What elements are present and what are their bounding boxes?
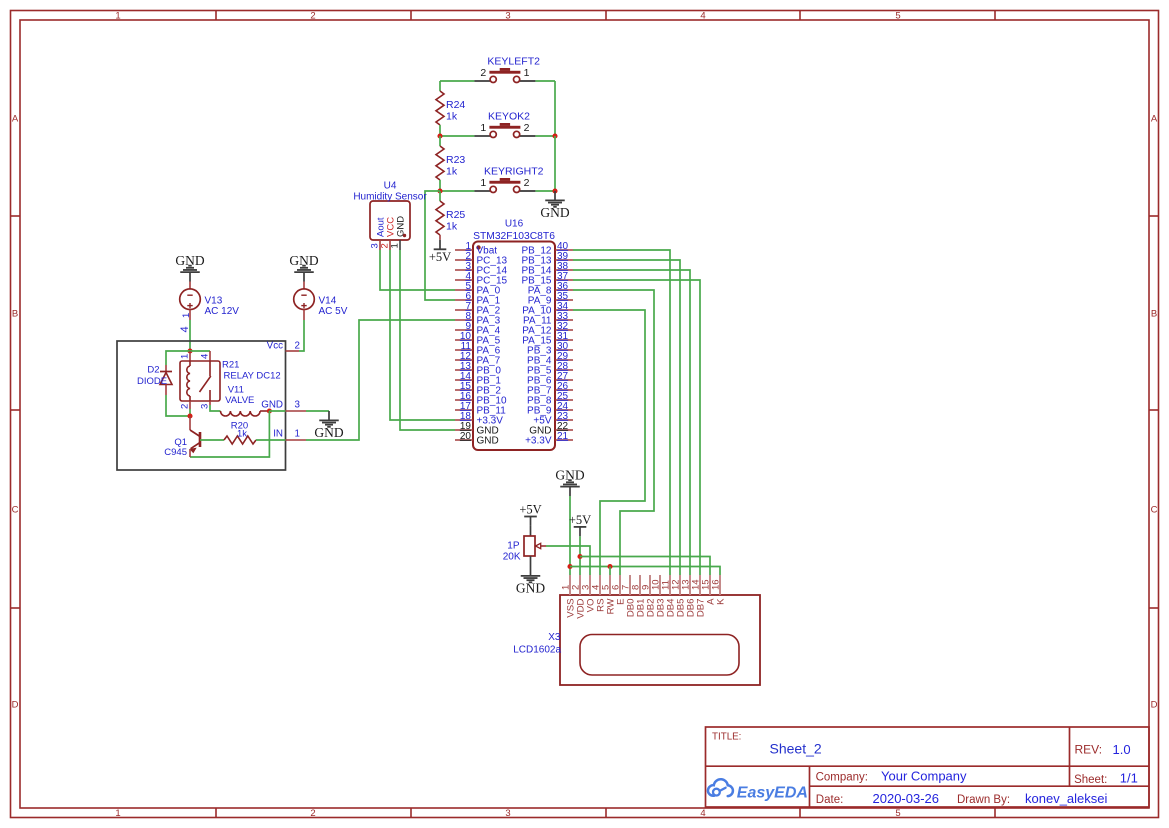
ground flag near plug [314,411,343,440]
svg-text:V11: V11 [228,384,244,395]
U16 pin 33 PA_11 [523,311,573,327]
U16 pin 34 PA_10 [522,301,573,317]
U16 pin 29 PB_4 [527,351,573,367]
wire V13 to plug pin 4 [189,320,191,351]
svg-text:A: A [1151,114,1158,125]
svg-text:Vcc: Vcc [267,340,283,351]
diode D2 [137,365,172,396]
U16 pin 15 PB_2 [455,381,501,397]
LCD pin 9 DB2 [641,575,657,617]
svg-text:KEYRIGHT2: KEYRIGHT2 [484,165,544,177]
svg-text:3: 3 [505,11,510,22]
power flag +5V above LCD VDD [569,513,591,536]
U16 pin 9 PA_4 [455,321,501,337]
wire U4 Aout to PA_0 [380,250,455,290]
relay R21 RELAY DC12 [179,351,280,409]
LCD pin 10 DB3 [651,575,667,617]
svg-text:2: 2 [179,404,190,409]
wire D2 bottom to node2 [166,395,190,416]
U16 pin 20 GND [455,431,499,447]
svg-text:4: 4 [700,11,705,22]
U16 pin 13 PB_0 [455,361,501,377]
U16 pin 27 PB_6 [527,371,573,387]
wire relay pin2 to node2 [189,409,191,416]
U4 pin 1 [399,240,401,250]
svg-text:GND: GND [477,436,499,447]
U16 pin 4 PC_15 [455,271,508,287]
U16 pin 16 PB_10 [455,391,507,407]
svg-text:4: 4 [179,326,191,332]
svg-text:D2: D2 [147,365,159,376]
svg-text:5: 5 [895,11,900,22]
svg-text:GND: GND [540,205,569,220]
svg-text:1.0: 1.0 [1113,742,1131,757]
svg-text:2: 2 [524,122,530,134]
svg-text:U4: U4 [384,181,397,192]
svg-text:U16: U16 [505,219,524,230]
svg-text:STM32F103C8T6: STM32F103C8T6 [473,231,555,242]
svg-text:AC 12V: AC 12V [205,306,240,317]
svg-text:GND: GND [261,399,283,410]
resistor R24 1k [436,91,465,125]
svg-text:Your Company: Your Company [881,769,967,784]
svg-text:C945: C945 [164,447,187,458]
wire left rail keys top [439,81,441,91]
wire U4 VCC to +3.3V pin18 [390,250,455,420]
wire R24 to node [439,125,441,136]
svg-text:VALVE: VALVE [225,395,254,406]
plug pin 2 Vcc [286,350,300,352]
svg-text:3: 3 [199,404,210,409]
right rail wire keyok-keyright [554,136,556,191]
svg-text:RELAY DC12: RELAY DC12 [224,370,281,381]
title block table [706,727,1150,807]
wire R20 to plug pin IN [256,439,286,441]
svg-text:EasyEDA: EasyEDA [737,784,808,801]
relay pin3 stub [209,401,211,405]
EasyEDA logo [708,779,808,801]
svg-text:D: D [1151,700,1158,711]
wire PA_10 to LCD RS [573,310,645,575]
svg-text:1: 1 [480,177,486,189]
svg-text:AC 5V: AC 5V [319,306,348,317]
svg-text:1k: 1k [446,221,458,233]
svg-text:B: B [12,309,18,320]
U16 pin 23 +5V [533,411,573,427]
U16 pin 35 PA_9 [528,291,573,307]
U16 pin 12 PA_7 [455,351,501,367]
svg-text:KEYOK2: KEYOK2 [488,110,530,122]
svg-text:+5V: +5V [569,513,591,527]
wire VDD net to LCD A [580,557,710,576]
LCD pin 3 VO [581,575,597,612]
U16 pin 17 PB_11 [455,401,506,417]
wire plug IN to PA_3 [306,320,455,440]
U16 pin 3 PC_14 [455,261,508,277]
U4 pin 3 [379,240,381,250]
wire plug GND to ground flag [306,410,329,412]
V14 pin stub [303,310,305,321]
wire PB_13 to LCD DB5 [573,260,680,575]
junction dot RW on VSS net [607,564,612,569]
U16 pin 14 PB_1 [455,371,501,387]
wire node to relay pin 4 [190,350,210,352]
title block texts [712,732,1138,807]
junction dot VSS net [567,564,572,569]
U16 pin 2 PC_13 [455,251,508,267]
potentiometer 1P 20K [503,536,546,563]
svg-text:Sheet_2: Sheet_2 [770,741,822,757]
svg-text:R21: R21 [222,360,239,371]
U16 pin 6 PA_1 [455,291,501,307]
svg-text:+5V: +5V [429,250,451,264]
svg-text:GND: GND [516,581,545,596]
svg-text:C: C [12,505,19,516]
LCD pin 16 K [711,575,727,605]
transistor Q1 C945 [164,416,200,458]
U16 pin 30 PB_3 [527,341,573,357]
LCD pin 1 VSS [561,575,577,618]
svg-text:1: 1 [390,243,401,248]
AC source V13 AC 12V [180,289,240,317]
LCD pin 15 A [701,575,717,605]
resistor R23 1k [436,136,465,191]
U16 pin 1 Vbat [455,241,497,257]
U4 pin 2 [389,240,391,250]
svg-text:Humidity Sensor: Humidity Sensor [353,191,427,202]
svg-text:X3: X3 [548,632,561,643]
wire node to D2 top [166,351,190,365]
U16 pin 37 PB_15 [521,271,573,287]
svg-text:D: D [12,700,19,711]
ground flag above V14 [289,253,318,289]
svg-text:R25: R25 [446,209,465,221]
U16 pin 8 PA_3 [455,311,501,327]
U16 pin 11 PA_6 [455,341,501,357]
wire RW stub to VSS net [609,567,611,576]
U16 pin 19 GND [455,421,499,437]
svg-text:+3.3V: +3.3V [525,436,552,447]
pushbutton KEYRIGHT2 [474,165,543,192]
inductor V11 VALVE coil [221,384,261,416]
svg-text:4: 4 [199,354,210,359]
node junction top of relay [187,348,192,353]
svg-text:V13: V13 [205,295,223,306]
svg-text:GND: GND [175,253,204,268]
LCD pin 4 RS [591,575,607,612]
svg-text:Company:: Company: [816,772,868,784]
IC U16 STM32F103C8T6 body [473,219,555,451]
junction dots keyok row [437,133,442,138]
svg-text:Date:: Date: [816,794,844,806]
U16 pin 26 PB_7 [527,381,573,397]
LCD pin 2 VDD [571,575,587,619]
U16 pin 39 PB_13 [521,251,573,267]
svg-text:16: 16 [711,579,722,590]
svg-text:1k: 1k [446,111,458,123]
svg-text:21: 21 [557,431,569,442]
svg-text:2020-03-26: 2020-03-26 [873,791,940,806]
module box [117,341,286,470]
svg-text:4: 4 [700,808,705,819]
wire VSS net to LCD K [570,567,720,576]
wire PB_15 to LCD DB7 [573,280,700,575]
svg-text:KEYLEFT2: KEYLEFT2 [487,55,540,67]
svg-text:2: 2 [524,177,530,189]
svg-text:20: 20 [460,431,472,442]
svg-text:K: K [716,598,727,605]
ground flag above V13 [175,253,204,289]
power flag +5V above potentiometer [519,503,541,536]
svg-text:DIODE: DIODE [137,376,167,387]
svg-text:3: 3 [295,399,301,410]
svg-text:1P: 1P [507,541,520,552]
ground flag below potentiometer [516,556,545,596]
U16 pin 40 PB_12 [521,241,573,257]
ground flag right of KEYRIGHT2 [540,191,569,220]
U16 pin 24 PB_9 [527,401,573,417]
svg-text:3: 3 [505,808,510,819]
U16 pin 10 PA_5 [455,331,501,347]
ground flag above LCD VSS [555,467,584,496]
svg-text:1/1: 1/1 [1120,771,1138,786]
wire V14 to Vcc pin 2 [299,320,304,351]
relay pin2 stub [189,401,191,409]
U16 pin 5 PA_0 [455,281,501,297]
svg-text:R24: R24 [446,99,465,111]
wire GND node down to emitter rail [190,411,269,457]
LCD pin 13 DB6 [681,575,697,617]
V13 pin 1 stub [189,310,191,321]
power flag +5V below R25 [429,240,451,264]
wire relay pin3 to valve coil [210,405,221,411]
svg-text:1: 1 [480,122,486,134]
U16 pin 7 PA_2 [455,301,501,317]
U16 pin 38 PB_14 [521,261,573,277]
svg-text:Sheet:: Sheet: [1074,774,1107,786]
U16 pin 32 PA_12 [522,321,573,337]
U16 pin 22 GND [529,421,573,437]
svg-text:GND: GND [314,425,343,440]
junction dots keyright row [437,188,442,193]
wire PA_8 to LCD E [573,290,654,575]
svg-text:1k: 1k [446,166,458,178]
svg-text:2: 2 [480,67,486,79]
node junction GND net [267,408,272,413]
wire row KEYLEFT2 [440,80,474,82]
svg-text:LCD1602a: LCD1602a [513,645,561,656]
wire +5V to LCD VDD [579,536,581,575]
resistor R25 1k [436,191,465,240]
svg-text:GND: GND [289,253,318,268]
wire row KEYRIGHT2 [440,190,474,192]
svg-text:A: A [12,114,19,125]
LCD pin 11 DB4 [661,575,677,617]
svg-text:C: C [1151,505,1158,516]
svg-text:5: 5 [895,808,900,819]
resistor R20 1k [224,420,256,444]
svg-text:1: 1 [524,67,530,79]
svg-text:Drawn By:: Drawn By: [957,794,1010,806]
node junction above Q1 [187,413,192,418]
LCD X3 LCD1602a body [513,595,760,685]
U16 pin 18 +3.3V [455,411,503,427]
U16 pin 21 +3.3V [525,431,573,447]
svg-text:TITLE:: TITLE: [712,732,741,743]
wire GND flag to LCD VSS [569,496,571,575]
LCD pin 14 DB7 [691,575,707,617]
svg-text:1: 1 [179,354,190,359]
wire PB_12 to LCD DB4 [573,250,670,575]
IC U4 Humidity Sensor [353,181,427,241]
U16 pin 31 PA_15 [522,331,573,347]
svg-text:REV:: REV: [1075,743,1103,757]
wire pot wiper to LCD VO [546,546,590,575]
wire PB_14 to LCD DB6 [573,270,690,575]
wire GND node to plug pin 3 [269,410,285,412]
svg-text:2: 2 [310,11,315,22]
plug pin 1 IN [286,439,307,441]
svg-text:GND: GND [396,216,407,237]
wire Q1 base to R20 [200,439,224,441]
svg-text:+5V: +5V [519,503,541,517]
svg-text:1: 1 [115,11,120,22]
LCD pin 8 DB1 [631,575,647,617]
pushbutton KEYLEFT2 [474,55,540,82]
svg-text:1: 1 [115,808,120,819]
U16 pin 28 PB_5 [527,361,573,377]
LCD pin 5 RW [601,575,617,614]
svg-text:R23: R23 [446,154,465,166]
wire keyright row to PA_1 [425,191,455,300]
LCD pin 6 E [611,575,627,605]
LCD pin 12 DB5 [671,575,687,617]
svg-text:1k: 1k [237,429,247,440]
svg-text:V14: V14 [319,295,337,306]
junction dot VDD net [577,554,582,559]
svg-text:konev_aleksei: konev_aleksei [1025,791,1107,806]
wire U4 GND to GND pin19 [400,250,455,430]
AC source V14 AC 5V [294,289,348,317]
svg-text:2: 2 [310,808,315,819]
wire row KEYOK2 [440,135,474,137]
pushbutton KEYOK2 [474,110,535,137]
svg-text:20K: 20K [503,552,521,563]
U16 pin 25 PB_8 [527,391,573,407]
svg-text:1: 1 [181,313,192,318]
U16 pin 36 PA_8 [528,281,573,297]
svg-text:1: 1 [295,428,300,439]
right rail wire keyleft-keyok [554,81,556,136]
svg-text:2: 2 [295,340,300,351]
svg-text:B: B [1151,309,1157,320]
plug pin 3 GND [286,410,307,412]
svg-text:GND: GND [555,467,584,482]
svg-text:IN: IN [273,428,283,439]
wire valve coil to GND node [260,410,269,412]
LCD pin 7 DB0 [621,575,637,617]
